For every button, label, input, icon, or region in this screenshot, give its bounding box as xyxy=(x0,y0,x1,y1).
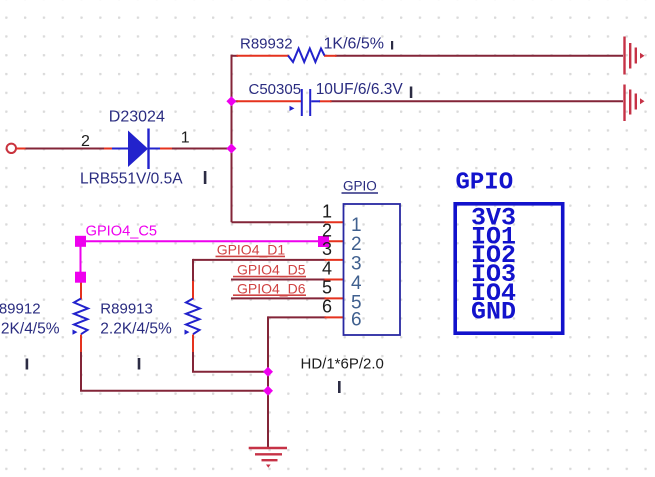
svg-text:R89912: R89912 xyxy=(0,301,41,318)
svg-text:HD/1*6P/2.0: HD/1*6P/2.0 xyxy=(301,355,384,372)
svg-text:LRB551V/0.5A: LRB551V/0.5A xyxy=(80,171,183,188)
svg-text:GPIO4_D1: GPIO4_D1 xyxy=(217,242,286,258)
svg-text:GPIO4_D6: GPIO4_D6 xyxy=(237,280,306,296)
svg-text:1K/6/5%: 1K/6/5% xyxy=(324,36,384,53)
svg-text:10UF/6/6.3V: 10UF/6/6.3V xyxy=(316,81,404,98)
svg-text:1: 1 xyxy=(322,201,332,221)
svg-text:2: 2 xyxy=(351,234,362,255)
svg-text:1: 1 xyxy=(351,215,362,236)
svg-text:4: 4 xyxy=(351,273,362,294)
svg-text:C50305: C50305 xyxy=(249,81,302,98)
svg-text:GPIO: GPIO xyxy=(456,170,514,197)
svg-text:6: 6 xyxy=(351,310,362,331)
svg-text:GPIO4_C5: GPIO4_C5 xyxy=(86,223,157,239)
svg-text:4: 4 xyxy=(322,259,332,279)
svg-text:GPIO4_D5: GPIO4_D5 xyxy=(237,262,306,278)
svg-text:D23024: D23024 xyxy=(109,108,165,125)
svg-text:2.2K/4/5%: 2.2K/4/5% xyxy=(100,321,172,338)
svg-text:2: 2 xyxy=(322,220,332,240)
svg-text:3: 3 xyxy=(322,239,332,259)
svg-text:R89932: R89932 xyxy=(240,36,293,53)
svg-text:GND: GND xyxy=(471,298,516,327)
svg-text:1: 1 xyxy=(181,130,190,147)
svg-text:2.2K/4/5%: 2.2K/4/5% xyxy=(0,321,60,338)
svg-text:R89913: R89913 xyxy=(100,301,153,318)
svg-text:3: 3 xyxy=(351,254,362,275)
svg-text:6: 6 xyxy=(322,296,332,316)
svg-text:5: 5 xyxy=(322,277,332,297)
svg-text:2: 2 xyxy=(81,133,90,150)
svg-text:GPIO: GPIO xyxy=(343,179,377,194)
